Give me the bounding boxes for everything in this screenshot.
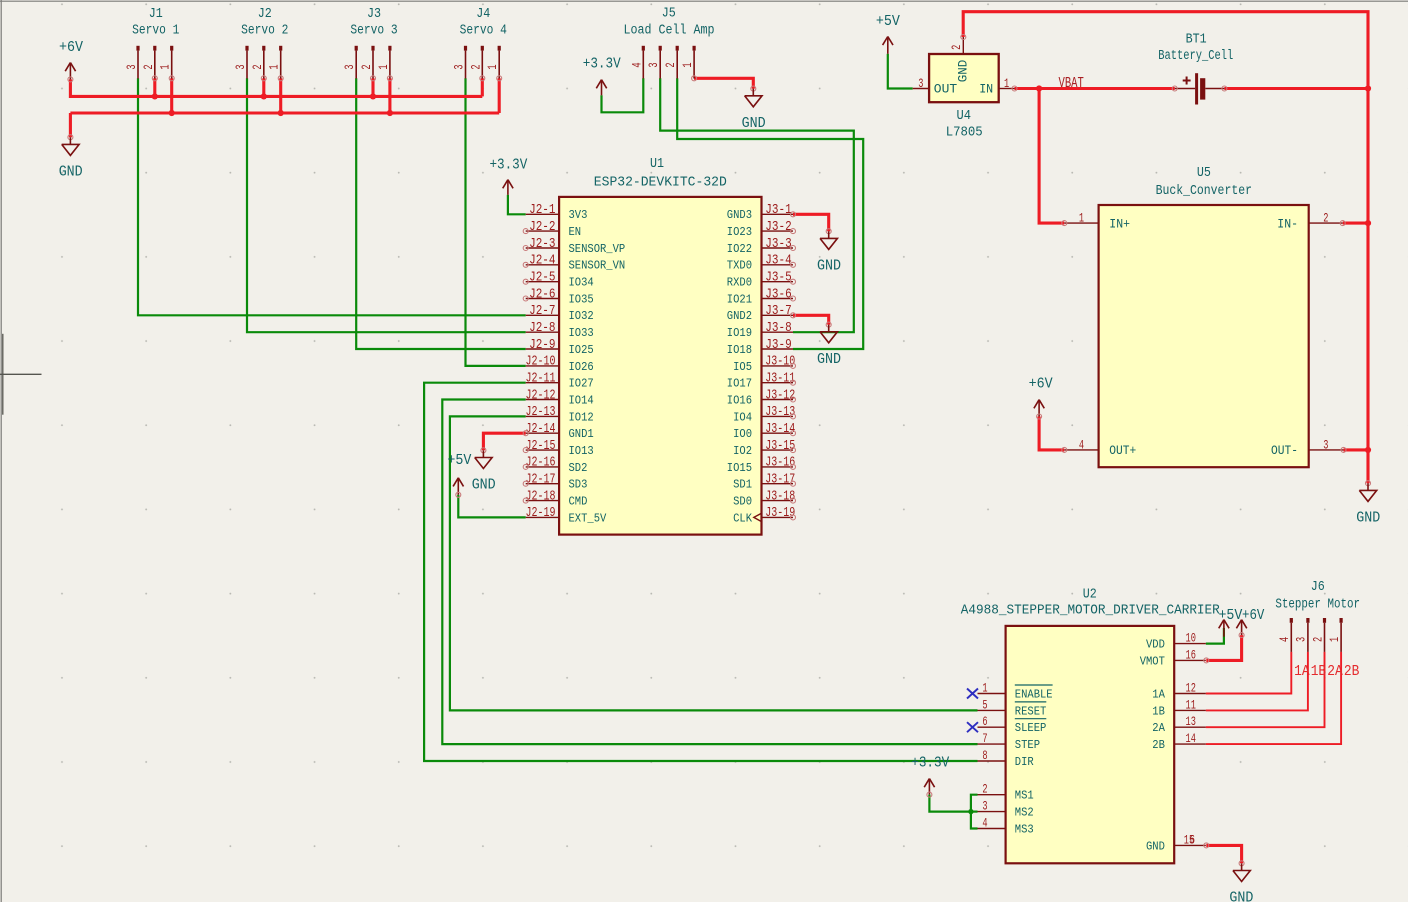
svg-text:J2-4: J2-4 xyxy=(529,254,555,269)
svg-text:2: 2 xyxy=(359,64,374,69)
svg-text:J3-5: J3-5 xyxy=(765,271,791,286)
svg-text:VMOT: VMOT xyxy=(1140,654,1165,668)
svg-text:+6V: +6V xyxy=(59,40,83,56)
svg-text:IO21: IO21 xyxy=(727,292,752,306)
svg-text:ENABLE: ENABLE xyxy=(1015,687,1053,701)
svg-text:J2-8: J2-8 xyxy=(529,321,555,336)
svg-text:GND: GND xyxy=(472,478,496,494)
svg-text:+6V: +6V xyxy=(1242,608,1265,624)
svg-text:1: 1 xyxy=(1079,211,1084,226)
svg-text:J3-8: J3-8 xyxy=(765,321,791,336)
svg-text:J2-17: J2-17 xyxy=(526,473,556,488)
svg-text:GND3: GND3 xyxy=(727,208,752,222)
svg-text:IO0: IO0 xyxy=(733,427,752,441)
svg-text:6: 6 xyxy=(982,714,987,729)
svg-text:1: 1 xyxy=(376,64,391,69)
svg-text:2B: 2B xyxy=(1344,663,1360,680)
svg-text:IN+: IN+ xyxy=(1109,216,1130,231)
svg-text:8: 8 xyxy=(982,748,987,763)
svg-text:2: 2 xyxy=(663,62,678,67)
svg-text:3: 3 xyxy=(1323,437,1328,452)
svg-text:Stepper Motor: Stepper Motor xyxy=(1275,596,1360,612)
svg-text:RESET: RESET xyxy=(1015,704,1047,718)
svg-text:IO14: IO14 xyxy=(569,393,594,407)
svg-text:J2-11: J2-11 xyxy=(526,372,556,387)
svg-text:Servo 3: Servo 3 xyxy=(350,23,397,39)
svg-text:12: 12 xyxy=(1186,681,1196,696)
svg-text:IO16: IO16 xyxy=(727,393,752,407)
svg-text:3: 3 xyxy=(918,76,923,91)
svg-text:1: 1 xyxy=(1004,76,1009,91)
svg-text:J3-4: J3-4 xyxy=(765,254,791,269)
svg-text:IO4: IO4 xyxy=(733,410,752,424)
svg-text:BT1: BT1 xyxy=(1186,31,1207,47)
svg-text:3: 3 xyxy=(646,62,661,67)
svg-text:MS2: MS2 xyxy=(1015,806,1034,820)
svg-text:2B: 2B xyxy=(1152,738,1165,752)
svg-text:J4: J4 xyxy=(476,6,490,22)
svg-text:IO2: IO2 xyxy=(733,444,752,458)
svg-text:3: 3 xyxy=(124,64,139,69)
svg-text:J3-2: J3-2 xyxy=(765,220,791,235)
svg-text:IN-: IN- xyxy=(1277,216,1298,231)
svg-text:J2-1: J2-1 xyxy=(529,203,555,218)
svg-text:1A: 1A xyxy=(1294,663,1310,680)
svg-text:IO12: IO12 xyxy=(569,410,594,424)
svg-text:STEP: STEP xyxy=(1015,738,1040,752)
svg-text:+3.3V: +3.3V xyxy=(911,756,949,772)
svg-text:2: 2 xyxy=(1310,637,1325,642)
svg-text:VDD: VDD xyxy=(1146,638,1165,652)
svg-text:J3-1: J3-1 xyxy=(765,203,791,218)
svg-text:A4988_STEPPER_MOTOR_DRIVER_CAR: A4988_STEPPER_MOTOR_DRIVER_CARRIER xyxy=(961,602,1220,618)
svg-text:IO15: IO15 xyxy=(727,461,752,475)
svg-text:EXT_5V: EXT_5V xyxy=(569,511,607,525)
svg-text:1: 1 xyxy=(1327,637,1342,642)
svg-text:L7805: L7805 xyxy=(946,124,983,140)
svg-text:J3-6: J3-6 xyxy=(765,287,791,302)
svg-text:J2-5: J2-5 xyxy=(529,271,555,286)
svg-text:IO33: IO33 xyxy=(569,326,594,340)
svg-text:IO19: IO19 xyxy=(727,326,752,340)
svg-text:J2-7: J2-7 xyxy=(529,304,555,319)
svg-text:IO23: IO23 xyxy=(727,225,752,239)
svg-text:2: 2 xyxy=(141,64,156,69)
svg-text:OUT+: OUT+ xyxy=(1109,443,1136,458)
svg-text:1B: 1B xyxy=(1152,704,1165,718)
svg-text:MS3: MS3 xyxy=(1015,822,1034,836)
svg-text:SENSOR_VN: SENSOR_VN xyxy=(569,259,626,273)
svg-text:RXD0: RXD0 xyxy=(727,276,752,290)
svg-text:IO5: IO5 xyxy=(733,360,752,374)
svg-text:4: 4 xyxy=(1079,437,1084,452)
svg-text:3: 3 xyxy=(233,64,248,69)
svg-text:SD2: SD2 xyxy=(569,461,588,475)
svg-text:IO17: IO17 xyxy=(727,377,752,391)
svg-text:J3-9: J3-9 xyxy=(765,338,791,353)
svg-text:J2-15: J2-15 xyxy=(526,439,556,454)
svg-text:J2-18: J2-18 xyxy=(526,489,556,504)
svg-text:1A: 1A xyxy=(1152,687,1165,701)
svg-text:CMD: CMD xyxy=(569,495,588,509)
svg-text:4: 4 xyxy=(629,62,644,67)
svg-text:3: 3 xyxy=(342,64,357,69)
svg-text:2: 2 xyxy=(949,45,964,50)
svg-text:J2-3: J2-3 xyxy=(529,237,555,252)
svg-text:J2-12: J2-12 xyxy=(526,388,556,403)
svg-text:IO13: IO13 xyxy=(569,444,594,458)
svg-text:+3.3V: +3.3V xyxy=(489,157,527,173)
svg-text:OUT: OUT xyxy=(934,81,957,96)
svg-text:IO18: IO18 xyxy=(727,343,752,357)
svg-text:10: 10 xyxy=(1186,631,1196,646)
svg-text:1: 1 xyxy=(680,62,695,67)
svg-text:J2-2: J2-2 xyxy=(529,220,555,235)
svg-text:2A: 2A xyxy=(1327,663,1343,680)
svg-text:1: 1 xyxy=(982,681,987,696)
svg-text:OUT-: OUT- xyxy=(1271,443,1298,458)
svg-text:J2-14: J2-14 xyxy=(526,422,556,437)
svg-text:GND: GND xyxy=(59,165,83,181)
svg-text:1: 1 xyxy=(158,64,173,69)
svg-text:16: 16 xyxy=(1186,647,1196,662)
svg-text:Buck_Converter: Buck_Converter xyxy=(1156,183,1252,199)
svg-text:Servo 1: Servo 1 xyxy=(132,23,179,39)
svg-text:GND: GND xyxy=(1146,839,1165,853)
svg-text:2: 2 xyxy=(982,782,987,797)
svg-text:2A: 2A xyxy=(1152,721,1165,735)
svg-text:MS1: MS1 xyxy=(1015,789,1034,803)
svg-text:4: 4 xyxy=(1277,637,1292,642)
svg-text:J3-7: J3-7 xyxy=(765,304,791,319)
svg-text:IN: IN xyxy=(979,81,993,96)
svg-text:SD1: SD1 xyxy=(733,478,752,492)
svg-text:1: 1 xyxy=(267,64,282,69)
svg-text:J2-13: J2-13 xyxy=(526,405,556,420)
svg-text:EN: EN xyxy=(569,225,582,239)
svg-text:U2: U2 xyxy=(1083,586,1097,602)
svg-text:IO25: IO25 xyxy=(569,343,594,357)
svg-text:GND: GND xyxy=(817,352,841,368)
svg-text:TXD0: TXD0 xyxy=(727,259,752,273)
svg-text:GND: GND xyxy=(956,60,971,83)
svg-text:J5: J5 xyxy=(662,5,676,21)
svg-text:J2-9: J2-9 xyxy=(529,338,555,353)
svg-text:J2: J2 xyxy=(258,6,272,22)
svg-text:Servo 2: Servo 2 xyxy=(241,23,288,39)
svg-text:+6V: +6V xyxy=(1029,376,1053,392)
svg-text:GND: GND xyxy=(1356,511,1380,527)
svg-text:J1: J1 xyxy=(149,6,163,22)
svg-text:4: 4 xyxy=(982,816,987,831)
svg-text:Servo 4: Servo 4 xyxy=(460,23,507,39)
svg-text:5: 5 xyxy=(982,697,987,712)
svg-text:7: 7 xyxy=(982,731,987,746)
svg-text:IO22: IO22 xyxy=(727,242,752,256)
svg-text:3: 3 xyxy=(452,64,467,69)
svg-text:Load Cell Amp: Load Cell Amp xyxy=(624,23,715,39)
svg-text:U4: U4 xyxy=(957,108,972,124)
svg-text:IO32: IO32 xyxy=(569,309,594,323)
svg-text:GND2: GND2 xyxy=(727,309,752,323)
svg-text:ESP32-DEVKITC-32D: ESP32-DEVKITC-32D xyxy=(594,174,727,190)
svg-text:J2-19: J2-19 xyxy=(526,506,556,521)
svg-text:J3-3: J3-3 xyxy=(765,237,791,252)
svg-text:+5V: +5V xyxy=(447,453,471,469)
svg-text:Battery_Cell: Battery_Cell xyxy=(1158,48,1233,64)
svg-text:SD3: SD3 xyxy=(569,478,588,492)
svg-text:SD0: SD0 xyxy=(733,495,752,509)
svg-text:SENSOR_VP: SENSOR_VP xyxy=(569,242,626,256)
svg-text:IO34: IO34 xyxy=(569,276,594,290)
svg-text:J2-10: J2-10 xyxy=(526,355,556,370)
svg-text:SLEEP: SLEEP xyxy=(1015,721,1047,735)
svg-text:U1: U1 xyxy=(650,156,664,172)
svg-text:3: 3 xyxy=(982,799,987,814)
svg-text:3: 3 xyxy=(1294,637,1309,642)
svg-text:GND: GND xyxy=(742,116,766,132)
svg-text:IO26: IO26 xyxy=(569,360,594,374)
svg-text:IO27: IO27 xyxy=(569,377,594,391)
svg-text:J2-16: J2-16 xyxy=(526,456,556,471)
svg-text:GND1: GND1 xyxy=(569,427,594,441)
svg-text:11: 11 xyxy=(1186,697,1197,712)
svg-text:14: 14 xyxy=(1186,731,1197,746)
svg-text:6: 6 xyxy=(1190,832,1195,847)
svg-text:13: 13 xyxy=(1186,714,1196,729)
svg-text:J2-6: J2-6 xyxy=(529,287,555,302)
svg-text:2: 2 xyxy=(250,64,265,69)
svg-text:GND: GND xyxy=(1229,891,1253,902)
svg-text:2: 2 xyxy=(1323,211,1328,226)
svg-text:U5: U5 xyxy=(1197,165,1211,181)
svg-text:1B: 1B xyxy=(1311,663,1327,680)
svg-text:1: 1 xyxy=(485,64,500,69)
svg-text:+5V: +5V xyxy=(876,14,900,30)
svg-text:VBAT: VBAT xyxy=(1059,75,1084,92)
svg-text:IO35: IO35 xyxy=(569,292,594,306)
svg-text:DIR: DIR xyxy=(1015,755,1034,769)
svg-text:3V3: 3V3 xyxy=(569,208,588,222)
svg-text:+5V: +5V xyxy=(1218,608,1242,624)
svg-text:2: 2 xyxy=(468,64,483,69)
svg-text:GND: GND xyxy=(817,259,841,275)
svg-text:+3.3V: +3.3V xyxy=(583,57,621,73)
svg-text:J6: J6 xyxy=(1311,579,1325,595)
svg-text:CLK: CLK xyxy=(733,511,752,525)
svg-text:J3: J3 xyxy=(367,6,381,22)
